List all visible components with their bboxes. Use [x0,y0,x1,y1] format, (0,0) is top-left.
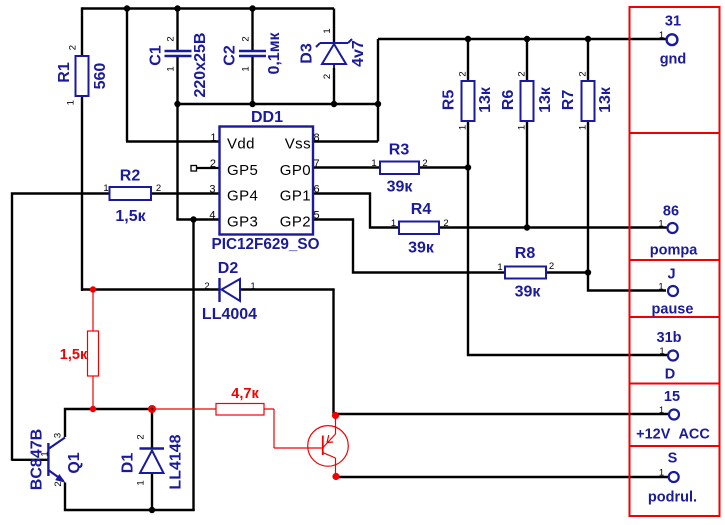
wire D3 top lead [333,9,335,43]
wire red 1.5k bottom lead [92,376,94,409]
wire C2 top lead [251,9,253,51]
wire GP5 stub [196,167,220,169]
svg-text:GP3: GP3 [227,214,258,231]
wire S podrul line [336,476,669,478]
svg-text:2: 2 [136,434,147,439]
svg-text:Q1: Q1 [66,452,83,473]
svg-text:R2: R2 [120,168,141,185]
svg-text:7: 7 [314,158,320,170]
wire R6 top lead [526,39,528,81]
svg-text:2: 2 [53,481,64,486]
svg-text:31b: 31b [657,330,682,346]
wire C1 bottom lead [176,57,178,104]
wire C1 top lead [176,9,178,51]
resistor red 4.7k [216,386,264,415]
svg-text:2: 2 [322,74,333,79]
wire D2 right segment to corner [240,288,335,290]
svg-text:6: 6 [314,184,320,196]
svg-text:DD1: DD1 [251,109,283,126]
svg-text:R1: R1 [56,62,73,83]
svg-text:1: 1 [166,66,177,71]
svg-text:R6: R6 [500,90,517,111]
svg-text:GP0: GP0 [280,162,311,179]
resistor R1 [56,45,109,105]
capacitor C2 [222,31,284,74]
resistor R3 [371,142,427,196]
svg-text:1: 1 [659,468,664,479]
svg-text:3: 3 [209,184,215,196]
junction red 1.5k bottom [90,406,96,412]
junction red emitter to +12V [332,412,339,419]
resistor R5 [441,71,495,130]
wire red emitter to +12V [335,416,337,434]
wire C2 bottom lead [251,57,253,104]
svg-text:1: 1 [66,100,77,105]
svg-text:31: 31 [665,13,681,29]
capacitor C1 [148,33,210,98]
svg-text:15: 15 [664,389,680,405]
wire Q1 collector rail [64,409,153,437]
svg-text:1: 1 [391,218,396,229]
connector S podrul [648,451,697,506]
wire D1 bottom lead [151,474,153,510]
wire D3 bottom lead [333,68,335,104]
wire D1 top lead [151,409,153,448]
resistor R6 [500,71,554,130]
wire R6 bottom lead [526,121,528,228]
wire Q1 emitter rail [64,483,195,512]
junction red D1 top node [148,405,156,413]
wire pin6 GP1 to R4 [313,192,399,228]
connector block red frame [630,7,720,516]
svg-text:1: 1 [578,125,589,130]
svg-text:GP1: GP1 [280,188,311,205]
svg-text:39к: 39к [408,240,435,257]
connector 15 +12V ACC [636,389,710,443]
svg-text:2: 2 [517,71,528,76]
svg-text:5: 5 [314,210,320,222]
wire ground rail y104 [178,103,379,105]
svg-text:R3: R3 [389,142,410,159]
wire GP3 pin4 [176,218,220,220]
wire pompa line from R4 [439,226,667,228]
svg-text:1: 1 [136,480,147,485]
svg-text:2: 2 [443,218,448,229]
svg-text:2: 2 [578,71,589,76]
svg-text:2: 2 [204,281,209,292]
wire R7 bottom lead to J [587,121,666,292]
wire R5 top lead [467,39,469,81]
svg-text:1,5к: 1,5к [60,347,88,363]
svg-text:GP5: GP5 [227,162,258,179]
svg-text:4,7к: 4,7к [231,386,259,402]
svg-text:R4: R4 [411,201,432,218]
svg-text:GP2: GP2 [280,214,311,231]
wire red 4.7k right lead to base [264,409,322,448]
svg-text:8: 8 [314,132,320,144]
junction Vss riser rail [375,101,381,107]
svg-text:J: J [667,267,675,283]
junction Vdd top rail [124,5,130,11]
junction C1 bottom rail [174,101,180,107]
svg-text:1: 1 [517,125,528,130]
junction R8 R7 node [585,269,591,275]
svg-text:R5: R5 [441,90,458,111]
svg-text:C1: C1 [148,45,165,66]
svg-text:LL4004: LL4004 [202,306,257,323]
svg-text:2: 2 [166,36,177,41]
wire pin5 GP2 to R8 [313,218,505,273]
wire top rail [82,7,334,9]
svg-text:R8: R8 [515,245,536,262]
svg-text:1: 1 [103,183,108,194]
svg-text:2: 2 [241,36,252,41]
svg-text:1: 1 [658,219,663,230]
wire drop to +12V line [332,290,334,415]
svg-text:D3: D3 [299,43,316,64]
svg-text:1: 1 [659,346,664,357]
svg-text:560: 560 [92,63,109,90]
svg-text:1: 1 [458,125,469,130]
svg-text:3: 3 [53,433,64,438]
wire R8 pin2 [546,271,588,273]
svg-text:1: 1 [40,451,51,456]
wire Vdd vertical [126,9,128,142]
svg-text:BC847B: BC847B [29,429,46,490]
connector J pause [652,267,694,318]
svg-text:2: 2 [210,158,216,170]
svg-text:pause: pause [652,302,694,318]
connector 86 pompa [650,204,698,259]
svg-text:1,5к: 1,5к [115,208,146,225]
svg-text:S: S [668,451,678,467]
pin GP5 unconnected square [191,166,197,172]
wire GP3 drop x193.5 [192,220,194,512]
resistor R4 [391,201,449,257]
junction R5 gnd line [465,36,471,42]
wire C1 drop to GP3 [176,104,178,220]
svg-text:podrul.: podrul. [648,490,697,506]
svg-text:1: 1 [250,281,255,292]
connector 31b D [657,330,682,383]
wire R2 pin1 to base [12,192,110,460]
wire R1 bottom lead down left rail [81,96,83,291]
wire R5 bottom lead to 31b corner [467,121,668,356]
wire red 1.5k top lead [92,290,94,331]
svg-text:1: 1 [497,262,502,273]
wire R7 top lead [587,39,589,81]
junction C2 top rail [249,5,255,11]
junction R6 pompa line [524,224,530,230]
zener diode D3 [299,28,368,79]
wire R3 pin2 [419,166,468,168]
transistor Q1 BC847B [29,429,84,490]
svg-text:1: 1 [322,28,333,33]
diode D1 LL4148 [120,434,185,489]
junction R7 gnd line [585,36,591,42]
svg-text:4: 4 [209,210,215,222]
svg-text:1: 1 [210,132,216,144]
IC DD1 PIC12F629 [209,109,319,253]
svg-text:pompa: pompa [650,243,698,259]
svg-text:LL4148: LL4148 [168,434,185,489]
wire R2 pin2 to GP4 [151,192,220,194]
svg-text:1: 1 [241,66,252,71]
resistor R8 [497,245,554,301]
svg-text:Vdd: Vdd [227,136,255,153]
svg-text:1: 1 [371,158,376,169]
connector 31 gnd [659,13,686,67]
svg-text:39к: 39к [515,284,542,301]
junction red collector to S [332,473,339,480]
svg-text:13к: 13к [477,86,494,113]
svg-text:1: 1 [658,282,663,293]
wire Vdd to pin1 [126,140,220,142]
junction red 1.5k top [90,286,96,292]
svg-text:D1: D1 [120,453,137,474]
wire 15 +12V ACC [334,413,670,415]
svg-text:13к: 13к [597,86,614,113]
resistor R2 [103,168,161,226]
svg-text:2: 2 [549,261,554,272]
diode D2 LL4004 [202,260,257,323]
junction R3 R5 node [465,164,471,170]
svg-text:13к: 13к [537,86,554,113]
wire red 4.7k left lead [152,408,216,410]
svg-text:PIC12F629_SO: PIC12F629_SO [212,236,320,253]
wire Vss riser x378 [377,39,379,142]
junction GP3 branch [190,216,196,222]
wire red collector to S [335,458,337,477]
wire gnd line [378,38,666,40]
svg-text:D2: D2 [218,260,239,277]
svg-text:D: D [665,367,675,383]
resistor red 1.5k [60,331,99,376]
resistor R7 [560,71,614,130]
svg-text:0,1мк: 0,1мк [266,31,283,74]
wire pin7 GP0 to R3 [313,166,380,168]
wire R1 top lead [81,7,83,56]
svg-text:2: 2 [458,71,469,76]
svg-text:GP4: GP4 [227,188,258,205]
wire D2 left segment [81,288,220,290]
svg-text:Vss: Vss [285,136,311,153]
transistor red PNP [308,426,349,467]
junction C1 top rail [174,5,180,11]
svg-text:220x25B: 220x25B [192,33,209,98]
svg-text:4v7: 4v7 [350,40,367,67]
svg-text:2: 2 [67,45,78,50]
svg-text:+12V ACC: +12V ACC [636,427,710,443]
svg-text:C2: C2 [222,45,239,66]
svg-text:gnd: gnd [660,52,687,68]
svg-text:1: 1 [659,30,664,41]
junction D1 bottom rail [149,507,155,513]
junction D3 bottom rail [331,101,337,107]
junction R6 gnd line [524,36,530,42]
svg-text:1: 1 [659,405,664,416]
wire pin8 Vss [313,140,378,142]
svg-text:R7: R7 [560,90,577,111]
svg-text:2: 2 [156,183,161,194]
svg-text:86: 86 [663,204,679,220]
junction C2 bottom rail [249,101,255,107]
svg-text:2: 2 [422,158,427,169]
svg-text:39к: 39к [387,179,414,196]
